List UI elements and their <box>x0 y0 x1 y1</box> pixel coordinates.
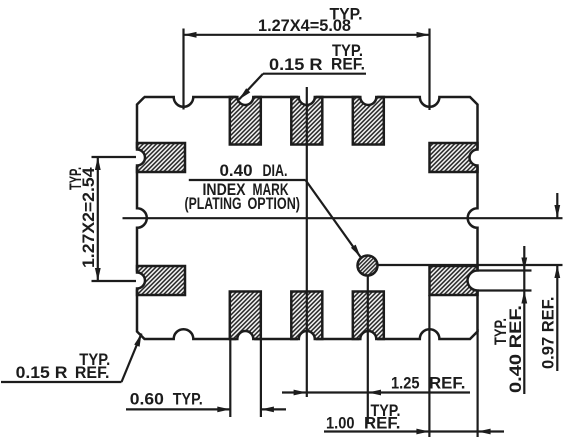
svg-text:(PLATING: (PLATING <box>185 195 242 213</box>
pad P3 top edge <box>291 88 322 145</box>
pad P6 bottom edge <box>291 292 322 349</box>
vertical centerline <box>306 87 308 397</box>
svg-text:0.40: 0.40 <box>220 162 253 180</box>
package body outline with castellation notches and corner reliefs <box>137 97 478 339</box>
dimension 1.27X2=2.54 left <box>67 157 136 281</box>
dimension 1.27X4=5.08 top <box>184 6 430 111</box>
svg-text:REF.: REF. <box>75 364 110 382</box>
label 0.40 DIA. INDEX MARK (PLATING OPTION) with leader <box>185 162 361 257</box>
svg-text:OPTION): OPTION) <box>248 195 301 213</box>
svg-text:0.15 R: 0.15 R <box>16 364 68 382</box>
svg-text:REF.: REF. <box>364 415 401 433</box>
pad P9 right edge upper <box>430 143 487 172</box>
svg-text:REF.: REF. <box>331 56 365 74</box>
svg-text:TYP.: TYP. <box>173 391 203 409</box>
pad P4 top edge <box>353 88 384 145</box>
label 0.15 R TYP. REF. bottom left with leader <box>1 334 142 383</box>
svg-text:1.25: 1.25 <box>391 375 420 393</box>
svg-text:1.00: 1.00 <box>326 415 355 433</box>
horizontal centerline <box>123 217 563 219</box>
pad P8 left edge lower <box>128 266 185 295</box>
svg-text:0.15 R: 0.15 R <box>269 56 323 74</box>
svg-text:REF.: REF. <box>429 375 466 393</box>
dimension 0.60 TYP. bottom <box>126 340 286 417</box>
index mark extension line vertical <box>367 266 369 423</box>
svg-text:1.27X4=5.08: 1.27X4=5.08 <box>258 17 351 35</box>
svg-text:0.40 REF.: 0.40 REF. <box>507 305 525 393</box>
castellation slot extension lines right <box>479 271 532 291</box>
pad P7 bottom edge <box>353 292 384 349</box>
pad P2 top edge <box>230 88 261 145</box>
svg-text:DIA.: DIA. <box>263 162 288 180</box>
dimension TYP. 0.40 REF. right <box>492 246 527 394</box>
dimension 0.97 REF. right <box>540 193 561 371</box>
index mark extension line horizontal <box>368 264 563 266</box>
svg-text:0.60: 0.60 <box>130 391 164 409</box>
index mark circle <box>358 256 378 276</box>
svg-text:0.97 REF.: 0.97 REF. <box>540 297 558 370</box>
dimension TYP. 1.00 REF. bottom <box>324 295 504 437</box>
pad P5 bottom edge <box>230 292 261 349</box>
pad P10 right edge lower <box>430 266 488 295</box>
pad P1 left edge upper <box>128 143 185 172</box>
dimension 1.25 REF. bottom <box>282 375 470 396</box>
label 0.15 R TYP. REF. top with leader <box>239 42 366 100</box>
svg-text:1.27X2=2.54: 1.27X2=2.54 <box>80 167 98 268</box>
